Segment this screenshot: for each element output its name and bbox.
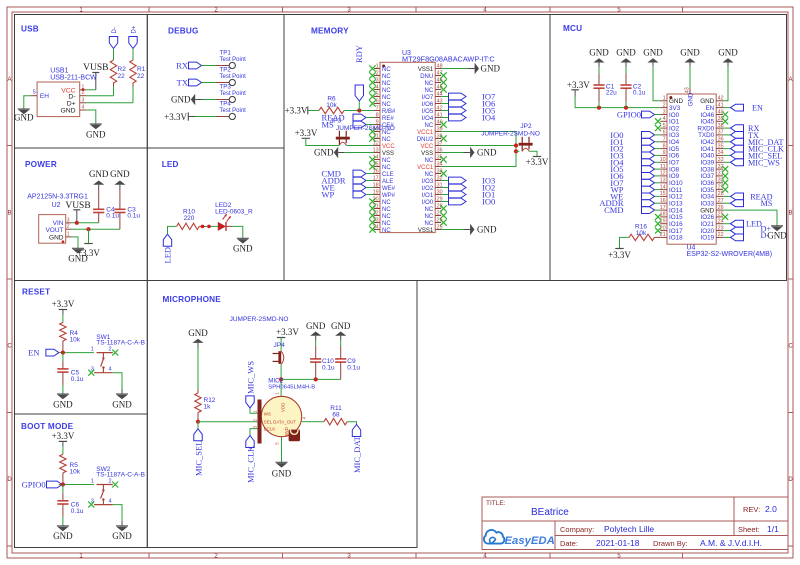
section LED box xyxy=(147,148,284,281)
svg-text:0.1u: 0.1u xyxy=(106,212,119,219)
junction MIC_SEL xyxy=(196,420,200,424)
net flag CMD (MCU) xyxy=(604,205,660,215)
power flag +3.3V (MCU) xyxy=(567,80,590,97)
svg-text:12: 12 xyxy=(660,171,666,177)
svg-text:17: 17 xyxy=(660,205,666,211)
svg-text:42: 42 xyxy=(718,96,724,102)
svg-text:8: 8 xyxy=(663,143,666,149)
svg-text:3: 3 xyxy=(67,217,70,223)
resistor R16 xyxy=(629,224,660,241)
net flag RDY xyxy=(354,45,364,110)
wire VSS pin36 to ground xyxy=(441,152,463,154)
svg-text:2: 2 xyxy=(108,478,111,484)
svg-text:Test Point: Test Point xyxy=(220,74,247,80)
section MEMORY box xyxy=(284,15,550,281)
svg-text:3: 3 xyxy=(376,77,379,83)
svg-text:NC: NC xyxy=(425,172,434,178)
svg-text:NC: NC xyxy=(382,137,391,143)
svg-text:WS: WS xyxy=(264,412,271,417)
svg-text:2: 2 xyxy=(67,224,70,230)
svg-text:24: 24 xyxy=(373,224,379,230)
svg-text:TP3: TP3 xyxy=(220,84,232,91)
capacitor C2 xyxy=(620,63,646,108)
svg-text:+3.3V: +3.3V xyxy=(285,106,308,116)
junction RDY xyxy=(357,108,361,112)
net flag MIC_SEL xyxy=(193,422,203,476)
svg-text:I/O2: I/O2 xyxy=(422,186,434,192)
net flag RX xyxy=(176,61,201,71)
svg-text:GPIO0: GPIO0 xyxy=(22,480,46,490)
svg-text:CMD: CMD xyxy=(604,205,623,215)
svg-text:10k: 10k xyxy=(326,102,337,109)
wire +3.3V via JP3 to VCC pin xyxy=(306,138,340,145)
net flag READ (MCU) xyxy=(723,192,773,201)
junction EN net xyxy=(61,351,65,355)
capacitor C1 xyxy=(593,63,617,108)
junction C1 xyxy=(597,106,601,110)
jumper JP4 symbol xyxy=(273,351,284,364)
svg-text:ALE: ALE xyxy=(382,179,393,185)
IC U1 USB-211-BCW xyxy=(30,67,97,116)
svg-text:TP4: TP4 xyxy=(220,101,232,108)
svg-text:I/O7: I/O7 xyxy=(422,95,434,101)
svg-text:NC: NC xyxy=(382,74,391,80)
svg-text:6: 6 xyxy=(663,130,666,136)
svg-text:5: 5 xyxy=(376,91,379,97)
svg-text:22u: 22u xyxy=(606,89,617,96)
svg-text:GND: GND xyxy=(49,234,64,241)
resistor R4 xyxy=(60,322,81,352)
net flag LED (MCU) xyxy=(723,220,762,229)
wire WE xyxy=(366,187,374,189)
svg-text:GPIO0: GPIO0 xyxy=(617,110,641,120)
svg-text:VSS1: VSS1 xyxy=(418,228,434,234)
svg-text:21: 21 xyxy=(373,203,379,209)
ground GND (above C9) xyxy=(331,321,351,341)
svg-text:JP2: JP2 xyxy=(520,123,532,130)
net flag EN xyxy=(28,348,59,358)
svg-text:GND: GND xyxy=(60,107,75,114)
svg-text:5: 5 xyxy=(33,90,36,96)
svg-text:2: 2 xyxy=(82,90,85,96)
svg-text:I/O5: I/O5 xyxy=(422,109,434,115)
svg-text:7: 7 xyxy=(663,137,666,143)
ground GND (LED) xyxy=(233,238,253,253)
net flag ADDR (MCU) xyxy=(599,198,660,208)
net flag TX xyxy=(177,78,202,88)
svg-text:EN: EN xyxy=(28,348,39,358)
ground GND (pin26) xyxy=(767,226,787,241)
svg-text:1: 1 xyxy=(275,392,280,395)
svg-text:Test Point: Test Point xyxy=(220,108,247,114)
svg-text:CLE: CLE xyxy=(382,172,394,178)
net flag GPIO0 (MCU) xyxy=(617,110,660,120)
svg-text:NC: NC xyxy=(382,67,391,73)
svg-text:GND: GND xyxy=(589,48,609,58)
net flag D+ (top) xyxy=(129,25,138,48)
wire D- net xyxy=(86,95,113,97)
svg-text:1: 1 xyxy=(67,231,70,237)
svg-text:4: 4 xyxy=(663,116,666,122)
wire VDD rail to caps xyxy=(281,378,341,380)
svg-text:GND: GND xyxy=(14,113,34,123)
svg-text:GND: GND xyxy=(680,48,700,58)
net flag WP (MCU) xyxy=(611,185,660,195)
power flag +3.3V (power out) xyxy=(88,229,90,243)
svg-text:Test Point: Test Point xyxy=(220,57,247,63)
svg-text:I/O3: I/O3 xyxy=(422,179,434,185)
net flag MIC_DAT xyxy=(347,422,362,473)
svg-text:41: 41 xyxy=(718,102,724,108)
net flag MIC_CLK xyxy=(245,429,257,483)
wire JP2 left leg xyxy=(516,150,519,152)
net flag IO0 xyxy=(441,197,495,207)
svg-text:1: 1 xyxy=(253,410,258,413)
ground GND (switch) xyxy=(112,521,132,541)
wire VCC pin37 xyxy=(441,145,516,147)
svg-text:LED: LED xyxy=(163,247,173,264)
capacitor labels C10/C9 xyxy=(322,358,360,372)
test point TP4 xyxy=(216,101,246,120)
section MCU box xyxy=(550,15,787,281)
wire GND pin down xyxy=(86,110,96,124)
net flag EN (MCU) xyxy=(723,104,763,113)
svg-text:DNU2: DNU2 xyxy=(417,137,434,143)
frame zone letters right xyxy=(788,77,793,483)
svg-text:22: 22 xyxy=(373,210,379,216)
ground GND (U2) xyxy=(68,248,88,263)
wire WP xyxy=(366,194,374,196)
net flag D+ (MCU) xyxy=(723,225,771,235)
junction C2 xyxy=(624,106,628,110)
svg-text:R1: R1 xyxy=(137,66,146,73)
wire +3.3V to R4 xyxy=(62,310,64,315)
capacitor C9 xyxy=(335,341,346,380)
svg-text:A.M. & J.V.d.I.H.: A.M. & J.V.d.I.H. xyxy=(700,538,762,548)
wire EN net to switch xyxy=(59,352,94,354)
svg-text:MIC_WS: MIC_WS xyxy=(748,158,780,167)
svg-text:GND: GND xyxy=(86,130,106,140)
microphone MIC2 SPH0645LM4H-B xyxy=(253,377,316,445)
svg-text:DNU: DNU xyxy=(420,74,433,80)
svg-text:I/O0: I/O0 xyxy=(422,200,434,206)
svg-text:15: 15 xyxy=(373,161,379,167)
wire GND to VSS pin xyxy=(344,152,374,154)
diode LED2 LED-0603_R xyxy=(215,202,253,231)
svg-text:D: D xyxy=(7,477,12,483)
svg-text:3: 3 xyxy=(82,97,85,103)
svg-text:5: 5 xyxy=(275,442,280,445)
svg-text:0.1u: 0.1u xyxy=(322,364,335,371)
junction VCC xyxy=(82,88,85,91)
svg-text:SEL DATA_OUT: SEL DATA_OUT xyxy=(264,419,296,424)
svg-text:2021-01-18: 2021-01-18 xyxy=(596,538,640,548)
switch SW2 TS-1187A-C-A-B xyxy=(88,466,145,508)
svg-text:NC: NC xyxy=(425,88,434,94)
svg-text:SPH0645LM4H-B: SPH0645LM4H-B xyxy=(268,384,315,390)
net flag IO1 (MCU) xyxy=(610,137,660,147)
resistor R6 xyxy=(319,96,344,114)
svg-text:5: 5 xyxy=(663,123,666,129)
svg-text:10k: 10k xyxy=(70,468,81,475)
svg-text:USB-211-BCW: USB-211-BCW xyxy=(50,74,97,81)
ground GND (EH) xyxy=(14,109,34,123)
ground GND (switch) xyxy=(112,389,132,409)
svg-text:MIC_DAT: MIC_DAT xyxy=(352,435,362,473)
svg-text:68: 68 xyxy=(332,412,340,419)
svg-text:NC: NC xyxy=(425,158,434,164)
section BOOT MODE box xyxy=(15,414,148,548)
svg-text:14: 14 xyxy=(660,184,666,190)
svg-text:JP3: JP3 xyxy=(330,118,342,125)
wire D+ flag to R1 xyxy=(132,49,134,61)
svg-text:VSS: VSS xyxy=(382,151,394,157)
net flag TX (MCU) xyxy=(723,131,759,140)
wire EH pin to ground xyxy=(24,96,31,109)
svg-text:MIC2: MIC2 xyxy=(268,377,283,384)
svg-text:VUSB: VUSB xyxy=(83,63,108,73)
resistor R5 xyxy=(60,454,81,484)
wire +3.3V to TP4 xyxy=(195,116,216,118)
svg-text:+3.3V: +3.3V xyxy=(567,80,590,90)
net flag IO5 xyxy=(441,106,495,116)
svg-text:GND: GND xyxy=(233,244,253,254)
svg-text:MS: MS xyxy=(761,199,773,208)
svg-text:JUMPER-2SMD-NO: JUMPER-2SMD-NO xyxy=(481,130,540,137)
IC U3 MT29F8G08ABACAWP-IT:C xyxy=(369,50,494,234)
svg-text:Polytech Lille: Polytech Lille xyxy=(604,524,654,534)
net flag VUSB xyxy=(83,63,108,90)
net flag IO3 (MCU) xyxy=(610,150,660,160)
svg-text:EH: EH xyxy=(40,93,49,100)
svg-text:MEMORY: MEMORY xyxy=(311,27,349,36)
svg-text:I/O4: I/O4 xyxy=(422,116,434,122)
IC U2 AP2125N-3.3TRG1 xyxy=(27,193,88,243)
net flag IO6 (MCU) xyxy=(610,171,660,181)
capacitor C6 xyxy=(57,485,84,517)
wire U2 GND pin xyxy=(72,237,79,248)
wire ADDR xyxy=(366,180,374,182)
section RESET box xyxy=(15,281,148,415)
svg-text:1k: 1k xyxy=(204,403,212,410)
svg-text:R/B#: R/B# xyxy=(382,109,396,115)
svg-text:GND: GND xyxy=(188,328,208,338)
net flag IO1 xyxy=(441,190,495,200)
svg-text:3: 3 xyxy=(663,109,666,115)
svg-text:JUMPER-2SMD-NO: JUMPER-2SMD-NO xyxy=(230,316,289,323)
svg-text:10k: 10k xyxy=(636,230,647,237)
net flag IO7 xyxy=(441,92,495,102)
svg-text:16: 16 xyxy=(660,198,666,204)
power flag +3.3V (BOOT) xyxy=(52,431,75,442)
wire CMD xyxy=(366,173,374,175)
svg-text:4: 4 xyxy=(82,105,85,111)
capacitor C10 xyxy=(310,341,321,380)
svg-text:WE#: WE# xyxy=(382,186,396,192)
junction C10 xyxy=(314,377,318,381)
svg-text:43: 43 xyxy=(684,87,690,93)
ground GND (above C10) xyxy=(306,321,326,341)
wire LED2 to ground xyxy=(232,226,243,238)
svg-text:VCC1: VCC1 xyxy=(417,130,434,136)
svg-text:NC: NC xyxy=(382,95,391,101)
wire R6 to R/B# pin xyxy=(344,110,374,112)
svg-text:37: 37 xyxy=(718,130,724,136)
svg-text:8: 8 xyxy=(376,112,379,118)
svg-text:TP1: TP1 xyxy=(220,50,232,57)
wire LED flag to R10 xyxy=(168,226,177,234)
svg-text:36: 36 xyxy=(718,137,724,143)
jumper JP4 JUMPER-2SMD-NO xyxy=(230,316,289,349)
junction dots R10/LED2 xyxy=(201,225,205,229)
svg-text:IO19: IO19 xyxy=(701,235,715,242)
svg-text:23: 23 xyxy=(373,217,379,223)
svg-text:9: 9 xyxy=(663,150,666,156)
svg-text:2: 2 xyxy=(376,70,379,76)
svg-text:26: 26 xyxy=(718,205,724,211)
wire READ to RE# xyxy=(366,117,374,119)
svg-text:D+: D+ xyxy=(132,25,138,33)
ground GND (C5) xyxy=(53,394,73,409)
svg-text:0.1u: 0.1u xyxy=(633,89,646,96)
ground GND (MCU top 3) xyxy=(643,48,663,63)
wire VSS1 pin48 to ground xyxy=(441,68,468,70)
svg-text:6: 6 xyxy=(376,98,379,104)
svg-text:I/O1: I/O1 xyxy=(422,193,434,199)
svg-text:VSS1: VSS1 xyxy=(418,67,434,73)
wire MS to CE# xyxy=(366,124,374,126)
wire R10 to LED2 xyxy=(205,225,218,227)
wire VOUT net xyxy=(72,228,120,230)
ground flag GND (TP3) xyxy=(171,94,203,106)
svg-text:GND: GND xyxy=(688,92,695,106)
svg-text:GND: GND xyxy=(112,531,132,541)
wire C6 to ground xyxy=(62,517,64,526)
svg-text:23: 23 xyxy=(718,225,724,231)
svg-text:33: 33 xyxy=(718,157,724,163)
wire VIN net xyxy=(72,222,99,224)
power flag +3.3V (JP2) xyxy=(526,157,549,168)
svg-text:4: 4 xyxy=(108,367,111,373)
svg-text:GND: GND xyxy=(477,225,497,235)
net flag WE (MCU) xyxy=(610,191,660,201)
svg-text:R2: R2 xyxy=(118,66,127,73)
svg-text:A: A xyxy=(7,77,11,83)
svg-text:22: 22 xyxy=(118,73,126,80)
wire C5 to ground xyxy=(62,385,64,394)
power flag +3.3V (TP4) xyxy=(164,112,195,122)
test point TP1 xyxy=(216,50,246,69)
svg-text:GND: GND xyxy=(477,148,497,158)
svg-text:1: 1 xyxy=(91,478,94,484)
jumper JP2 JUMPER-2SMD-NO xyxy=(481,123,540,151)
svg-text:22: 22 xyxy=(137,73,145,80)
section MICROPHONE box xyxy=(147,281,417,548)
svg-text:GND: GND xyxy=(110,169,130,179)
ground flag GND (pin48) xyxy=(468,63,500,75)
wire GND to pin1 xyxy=(653,63,660,101)
resistor R12 xyxy=(195,348,216,422)
svg-text:RX: RX xyxy=(176,61,188,71)
power flag +3.3V (mic) xyxy=(276,327,299,338)
net flag IO5 (MCU) xyxy=(610,164,660,174)
net flag IO4 xyxy=(441,113,496,123)
net flag ADDR xyxy=(322,176,367,186)
net flag CMD xyxy=(322,169,367,179)
svg-text:GND: GND xyxy=(481,64,501,74)
svg-text:GND: GND xyxy=(53,399,73,409)
svg-text:A: A xyxy=(788,77,792,83)
svg-text:LED: LED xyxy=(162,160,179,169)
wire JP4 to VDD net xyxy=(280,365,282,388)
svg-text:EasyEDA: EasyEDA xyxy=(505,535,555,547)
wire +3.3V to JP4 xyxy=(280,338,282,352)
net flag WE xyxy=(322,183,367,193)
title block border xyxy=(482,497,788,550)
net flag IO6 xyxy=(441,99,495,109)
svg-text:NC: NC xyxy=(382,207,391,213)
svg-text:NC: NC xyxy=(425,221,434,227)
svg-text:DEBUG: DEBUG xyxy=(168,27,199,36)
svg-text:+3.3V: +3.3V xyxy=(164,112,187,122)
test point TP3 xyxy=(216,84,246,103)
ground GND (USB chip) xyxy=(86,124,106,140)
ground GND (above C4) xyxy=(89,169,109,190)
svg-text:+3.3V: +3.3V xyxy=(526,157,549,167)
svg-text:Date:: Date: xyxy=(560,539,578,548)
wire +3.3V rail to 3V3 pin xyxy=(575,97,660,108)
section USB box xyxy=(15,15,148,149)
svg-text:USB1: USB1 xyxy=(50,67,68,74)
svg-text:D: D xyxy=(788,477,793,483)
svg-text:NC: NC xyxy=(425,81,434,87)
test point TP2 xyxy=(216,67,246,86)
svg-text:BEatrice: BEatrice xyxy=(531,507,569,518)
svg-text:1/1: 1/1 xyxy=(767,524,779,534)
svg-text:4: 4 xyxy=(376,84,379,90)
svg-text:NC: NC xyxy=(382,214,391,220)
svg-text:TX: TX xyxy=(177,78,188,88)
wire mic GND pin to ground xyxy=(281,445,283,462)
power flag +3.3V (RESET) xyxy=(52,299,75,310)
svg-text:GND: GND xyxy=(331,321,351,331)
svg-text:1: 1 xyxy=(91,346,94,352)
svg-text:Test Point: Test Point xyxy=(220,91,247,97)
svg-text:VCC: VCC xyxy=(421,144,434,150)
EasyEDA logo xyxy=(484,530,555,547)
svg-text:220: 220 xyxy=(184,215,195,222)
svg-text:GND: GND xyxy=(718,48,738,58)
svg-text:GND: GND xyxy=(53,531,73,541)
svg-text:MIC_CLK: MIC_CLK xyxy=(245,445,255,483)
wire EN net to switch xyxy=(59,484,94,486)
svg-text:35: 35 xyxy=(718,143,724,149)
svg-text:TS-1187A-C-A-B: TS-1187A-C-A-B xyxy=(96,472,145,479)
svg-text:10: 10 xyxy=(660,157,666,163)
ground GND (mic) xyxy=(272,462,292,478)
svg-text:2: 2 xyxy=(253,419,258,422)
wire VSS1 pin25 to ground xyxy=(441,229,463,231)
svg-text:TS-1187A-C-A-B: TS-1187A-C-A-B xyxy=(96,340,145,347)
svg-text:20: 20 xyxy=(373,196,379,202)
junction EN net xyxy=(61,482,65,486)
net flag RX (MCU) xyxy=(723,124,759,133)
svg-text:GND: GND xyxy=(314,148,334,158)
svg-text:GND: GND xyxy=(767,231,787,241)
wire GND to pin43 xyxy=(689,63,691,89)
svg-text:0.1u: 0.1u xyxy=(71,508,84,515)
svg-text:Sheet:: Sheet: xyxy=(738,525,760,534)
